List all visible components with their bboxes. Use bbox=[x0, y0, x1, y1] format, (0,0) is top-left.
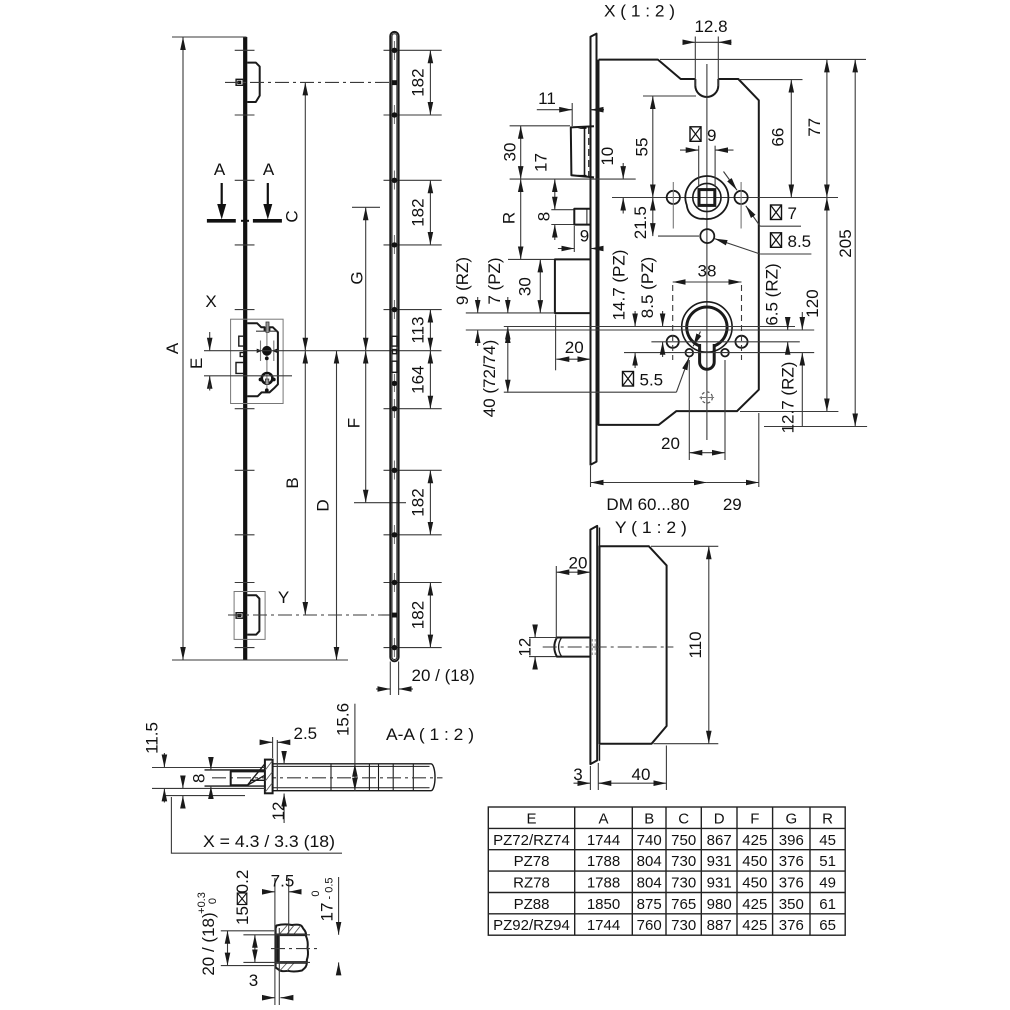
dimension 11.5 bbox=[143, 722, 165, 802]
svg-text:E: E bbox=[187, 358, 206, 369]
dimension 12.7 (RZ) bbox=[779, 312, 803, 433]
svg-text:29: 29 bbox=[723, 495, 742, 514]
svg-text:61: 61 bbox=[819, 896, 836, 913]
label X = 4.3 / 3.3 (18) bbox=[171, 797, 342, 853]
center line follower bbox=[204, 350, 442, 352]
dimension 8 latch bbox=[190, 757, 211, 799]
title X (1:2) bbox=[604, 2, 675, 21]
screw hole ticks on plate bbox=[235, 50, 255, 647]
svg-text:804: 804 bbox=[637, 853, 662, 870]
left handle screw hole d7 bbox=[667, 182, 680, 229]
svg-text:931: 931 bbox=[707, 853, 732, 870]
keeper face plate bbox=[590, 526, 599, 764]
svg-text:30: 30 bbox=[515, 277, 534, 296]
svg-text:38: 38 bbox=[698, 262, 717, 281]
keeper sheet bottom bbox=[152, 786, 265, 796]
dimension C bbox=[283, 82, 306, 350]
dimension 9 bolt throw bbox=[558, 226, 603, 252]
svg-text:B: B bbox=[283, 477, 302, 488]
right handle screw hole d7 bbox=[735, 182, 748, 229]
dimension boxed-9 square bbox=[680, 126, 734, 186]
svg-text:20: 20 bbox=[569, 554, 588, 573]
dimension X gap bbox=[182, 778, 184, 807]
dimension 182 fifth bbox=[409, 583, 431, 648]
svg-text:12: 12 bbox=[516, 638, 535, 657]
small square hole on strip bbox=[392, 350, 396, 354]
dimension 120 bbox=[803, 198, 827, 412]
svg-text:8.5 (PZ): 8.5 (PZ) bbox=[638, 257, 657, 318]
svg-text:17: 17 bbox=[318, 903, 337, 922]
dimension 12.8 bbox=[683, 17, 732, 86]
table header row bbox=[526, 811, 833, 828]
mushroom pin bbox=[554, 638, 590, 657]
svg-text:376: 376 bbox=[779, 917, 804, 934]
svg-text:1744: 1744 bbox=[587, 917, 620, 934]
plate segment marks bbox=[331, 764, 413, 791]
svg-text:PZ78: PZ78 bbox=[514, 853, 550, 870]
svg-text:867: 867 bbox=[707, 832, 732, 849]
plate face lines bbox=[275, 878, 289, 1005]
dimension DM 60...80 and 29 bbox=[591, 413, 759, 514]
svg-text:F: F bbox=[750, 811, 759, 828]
dimension 15 box 0.2 bbox=[233, 870, 310, 963]
follower center line bbox=[612, 197, 838, 199]
face plate edge-on bbox=[243, 37, 247, 660]
label X bbox=[205, 292, 216, 311]
svg-text:875: 875 bbox=[637, 896, 662, 913]
latch bolt front view bbox=[571, 126, 594, 177]
svg-text:182: 182 bbox=[409, 68, 428, 96]
dimension 15.6 bbox=[334, 703, 355, 791]
center line cylinder bbox=[204, 375, 292, 377]
svg-text:E: E bbox=[526, 811, 536, 828]
follower side view bbox=[257, 333, 278, 391]
follower square 9mm bbox=[699, 190, 715, 206]
hole d8.5 below follower bbox=[700, 229, 714, 243]
dimension B bbox=[283, 351, 305, 615]
extension at case shoulder bbox=[739, 79, 803, 81]
center line bbox=[212, 777, 443, 779]
bolt slot on strip bbox=[392, 361, 397, 372]
svg-text:PZ92/RZ94: PZ92/RZ94 bbox=[493, 917, 570, 934]
dimension 113 bbox=[409, 310, 431, 351]
dimension 55 bbox=[633, 96, 697, 198]
svg-text:120: 120 bbox=[803, 289, 822, 317]
svg-text:12.8: 12.8 bbox=[694, 17, 727, 36]
svg-text:7: 7 bbox=[788, 204, 797, 223]
svg-text:182: 182 bbox=[409, 601, 428, 629]
svg-text:164: 164 bbox=[409, 366, 428, 394]
svg-text:G: G bbox=[348, 271, 367, 284]
vertical center line bbox=[706, 64, 708, 440]
face plate lengthwise section bbox=[273, 764, 435, 791]
dimension A bbox=[163, 37, 183, 660]
svg-text:20 / (18): 20 / (18) bbox=[412, 666, 475, 685]
svg-text:730: 730 bbox=[671, 853, 696, 870]
reference line RZ center bbox=[466, 329, 814, 331]
svg-text:15.6: 15.6 bbox=[334, 703, 353, 736]
svg-text:11: 11 bbox=[538, 89, 556, 108]
svg-text:D: D bbox=[314, 499, 333, 511]
dimension 20 / (18) strip width bbox=[376, 662, 475, 696]
svg-text:12.7 (RZ): 12.7 (RZ) bbox=[779, 362, 798, 434]
svg-text:Y ( 1 : 2 ): Y ( 1 : 2 ) bbox=[615, 518, 687, 537]
svg-text:3: 3 bbox=[249, 971, 258, 990]
detail X box bbox=[231, 319, 284, 403]
svg-text:182: 182 bbox=[409, 198, 428, 226]
svg-text:376: 376 bbox=[779, 875, 804, 892]
cylinder profile bbox=[687, 307, 727, 369]
svg-text:396: 396 bbox=[779, 832, 804, 849]
extension 40 bottom / d5.5 leader line bbox=[504, 357, 689, 392]
svg-text:15: 15 bbox=[233, 906, 252, 925]
svg-text:10: 10 bbox=[598, 147, 617, 166]
svg-text:3: 3 bbox=[573, 765, 582, 784]
dimension 6.5 (RZ) bbox=[763, 263, 788, 354]
dimension 20 small holes bbox=[661, 360, 725, 460]
label d7 with leader bbox=[746, 204, 801, 226]
strip outline bbox=[390, 32, 398, 661]
leader to right d7 hole bbox=[724, 172, 738, 191]
dimension 12 pin bbox=[516, 626, 557, 668]
svg-text:750: 750 bbox=[671, 832, 696, 849]
keeper body outline bbox=[600, 546, 667, 743]
svg-text:PZ88: PZ88 bbox=[514, 896, 550, 913]
svg-text:65: 65 bbox=[819, 917, 836, 934]
dimension 182 second bbox=[409, 180, 431, 245]
svg-text:A: A bbox=[163, 342, 182, 354]
dimension 40 case bbox=[598, 746, 666, 791]
title A-A (1:2) bbox=[386, 725, 474, 744]
bottom keeper center line bbox=[228, 614, 391, 616]
svg-text:804: 804 bbox=[637, 875, 662, 892]
mounting hook slot bbox=[695, 79, 718, 97]
svg-text:376: 376 bbox=[779, 853, 804, 870]
svg-text:G: G bbox=[785, 811, 797, 828]
extension 205 bottom bbox=[764, 426, 867, 428]
latch slot on strip bbox=[392, 336, 397, 346]
svg-text:20: 20 bbox=[565, 338, 584, 357]
svg-text:8.5: 8.5 bbox=[788, 232, 812, 251]
reference line PZ center bbox=[504, 326, 795, 328]
bottom fixing hole bbox=[700, 392, 715, 403]
svg-text:182: 182 bbox=[409, 488, 428, 516]
dimension 20 pin bbox=[556, 554, 590, 640]
deadbolt retracted front bbox=[574, 209, 590, 225]
top latch keeper bbox=[236, 63, 260, 102]
svg-text:7 (PZ): 7 (PZ) bbox=[485, 257, 504, 304]
dimension 3 bbox=[249, 971, 293, 998]
svg-text:14.7 (PZ): 14.7 (PZ) bbox=[610, 250, 629, 321]
dimension 2.5 bbox=[260, 724, 317, 790]
lock case side view bbox=[247, 322, 278, 396]
cylinder screw holes d5.5 bbox=[667, 336, 748, 348]
dimension 17 tol bbox=[310, 877, 339, 973]
svg-text:R: R bbox=[500, 212, 519, 224]
svg-text:R: R bbox=[822, 811, 833, 828]
svg-text:9 (RZ): 9 (RZ) bbox=[453, 257, 472, 305]
svg-text:F: F bbox=[345, 418, 364, 428]
leader to small hole from above bbox=[693, 332, 700, 347]
svg-text:0: 0 bbox=[310, 890, 322, 896]
dimension D bbox=[314, 351, 337, 660]
svg-text:0: 0 bbox=[207, 898, 219, 904]
svg-text:7.5: 7.5 bbox=[271, 872, 295, 891]
svg-text:113: 113 bbox=[409, 317, 428, 344]
svg-text:51: 51 bbox=[819, 853, 836, 870]
svg-text:A: A bbox=[214, 160, 226, 179]
dimension E bbox=[187, 332, 210, 395]
svg-text:11.5: 11.5 bbox=[143, 722, 162, 754]
svg-text:1788: 1788 bbox=[587, 875, 620, 892]
small holes d5.5 pair bbox=[686, 349, 729, 357]
svg-text:0.2: 0.2 bbox=[233, 870, 252, 894]
plate cross-section hatched bbox=[265, 760, 273, 794]
dimension 30 bolt head bbox=[515, 259, 540, 313]
dimension G bbox=[348, 207, 380, 350]
svg-text:425: 425 bbox=[742, 832, 767, 849]
svg-text:40: 40 bbox=[632, 765, 651, 784]
svg-text:30: 30 bbox=[501, 143, 520, 162]
dimension 7 (PZ) bbox=[485, 257, 508, 342]
svg-text:931: 931 bbox=[707, 875, 732, 892]
svg-text:C: C bbox=[283, 210, 302, 222]
rivet holes bbox=[392, 48, 397, 651]
svg-text:2.5: 2.5 bbox=[294, 724, 318, 743]
bottom keeper bbox=[236, 595, 259, 634]
screw slot marks bbox=[393, 41, 395, 657]
svg-text:A: A bbox=[263, 160, 275, 179]
keeper extrusion blob bbox=[276, 924, 308, 971]
svg-text:RZ78: RZ78 bbox=[513, 875, 550, 892]
dimension 7.5 bbox=[263, 872, 302, 892]
lock case outline bbox=[599, 60, 759, 425]
dimension 8 bolt bbox=[535, 212, 574, 240]
detail Y box bbox=[234, 592, 265, 640]
dimension 30 latch bbox=[501, 126, 636, 179]
slot center line bbox=[271, 948, 320, 950]
svg-text:21.5: 21.5 bbox=[631, 206, 650, 239]
svg-text:55: 55 bbox=[633, 138, 652, 157]
dimension 9 (RZ) bbox=[453, 257, 478, 346]
svg-text:730: 730 bbox=[671, 917, 696, 934]
table row PZ92/RZ94 bbox=[493, 917, 836, 934]
extension at d8.5 hole bbox=[658, 235, 699, 237]
label Y bbox=[278, 588, 289, 607]
table row PZ88 bbox=[514, 896, 836, 913]
svg-text:980: 980 bbox=[707, 896, 732, 913]
follower inner circle bbox=[693, 183, 721, 211]
svg-text:760: 760 bbox=[637, 917, 662, 934]
dimension 38 bbox=[673, 262, 742, 283]
dimension 21.5 bbox=[631, 198, 653, 240]
svg-text:66: 66 bbox=[769, 128, 788, 147]
dimension 8.5 (PZ) bbox=[638, 257, 663, 357]
reference line lower screw axis bbox=[624, 352, 814, 354]
svg-text:730: 730 bbox=[671, 875, 696, 892]
label d5.5 bbox=[623, 371, 664, 390]
svg-text:77: 77 bbox=[805, 118, 824, 137]
dimension 205 bbox=[836, 59, 855, 426]
dimension F bbox=[345, 351, 406, 503]
svg-text:450: 450 bbox=[742, 875, 767, 892]
dimension 17 bbox=[532, 153, 575, 210]
dimension 40 (72/74) bbox=[480, 330, 508, 417]
extension 120 bottom bbox=[740, 411, 838, 413]
keeper sheet top bbox=[152, 768, 265, 770]
table row PZ78 bbox=[514, 853, 836, 870]
top extension line bbox=[172, 36, 247, 38]
svg-text:887: 887 bbox=[707, 917, 732, 934]
title Y (1:2) bbox=[615, 518, 687, 537]
svg-text:425: 425 bbox=[742, 917, 767, 934]
table grid bbox=[488, 807, 845, 935]
pin center line bbox=[543, 646, 674, 648]
svg-text:9: 9 bbox=[580, 227, 589, 246]
dimension 20/(18) tol rotated bbox=[196, 892, 274, 976]
bottom extension line bbox=[172, 659, 348, 661]
svg-text:- 0.5: - 0.5 bbox=[324, 877, 336, 899]
svg-text:20: 20 bbox=[661, 434, 680, 453]
reference line bolt bottom bbox=[466, 312, 555, 314]
dimension 110 bbox=[651, 546, 718, 743]
dimension 182 fourth bbox=[409, 470, 431, 535]
svg-text:1788: 1788 bbox=[587, 853, 620, 870]
svg-text:X: X bbox=[205, 292, 216, 311]
section A-A marker bbox=[207, 160, 282, 221]
svg-text:12: 12 bbox=[269, 802, 288, 821]
svg-text:8: 8 bbox=[190, 774, 209, 783]
table row RZ78 bbox=[513, 875, 836, 892]
dimension 66 bbox=[769, 80, 792, 198]
svg-text:DM 60...80: DM 60...80 bbox=[606, 495, 689, 514]
top keeper center line bbox=[225, 81, 391, 83]
dimension 3 plate bbox=[573, 765, 590, 790]
dashed lines through screw holes bbox=[673, 285, 742, 360]
svg-text:C: C bbox=[678, 811, 689, 828]
svg-text:110: 110 bbox=[686, 631, 705, 658]
svg-text:A: A bbox=[598, 811, 608, 828]
latch bolt section bbox=[231, 764, 265, 786]
face plate front edge bbox=[591, 34, 597, 465]
dimension R bbox=[500, 179, 555, 259]
label d8.5 with leader bbox=[715, 232, 812, 254]
svg-text:X = 4.3 / 3.3 (18): X = 4.3 / 3.3 (18) bbox=[203, 832, 335, 851]
dimension 164 bbox=[409, 351, 431, 409]
svg-text:PZ72/RZ74: PZ72/RZ74 bbox=[493, 832, 570, 849]
svg-text:205: 205 bbox=[836, 229, 855, 257]
deadbolt head thrown bbox=[555, 259, 591, 313]
dimension 14.7 (PZ) bbox=[610, 250, 635, 368]
latch slot cutouts on plate bbox=[236, 336, 243, 373]
svg-text:740: 740 bbox=[637, 832, 662, 849]
svg-text:B: B bbox=[644, 811, 654, 828]
svg-text:9: 9 bbox=[707, 126, 716, 145]
dimension 12 section bbox=[269, 752, 288, 823]
svg-text:450: 450 bbox=[742, 853, 767, 870]
dimension 182 first bbox=[409, 50, 431, 115]
svg-text:1744: 1744 bbox=[587, 832, 620, 849]
svg-text:40 (72/74): 40 (72/74) bbox=[480, 340, 499, 418]
svg-text:350: 350 bbox=[779, 896, 804, 913]
svg-text:17: 17 bbox=[532, 153, 551, 172]
svg-text:8: 8 bbox=[535, 212, 554, 221]
keeper slot bbox=[278, 935, 306, 963]
hole extension lines to dimension column bbox=[384, 50, 442, 647]
svg-text:5.5: 5.5 bbox=[640, 371, 664, 390]
svg-text:X ( 1 : 2 ): X ( 1 : 2 ) bbox=[604, 2, 675, 21]
cylinder rosette outer circle bbox=[682, 302, 732, 352]
reference line screw axis bbox=[651, 341, 799, 343]
dimension 77 bbox=[805, 59, 827, 197]
svg-text:Y: Y bbox=[278, 588, 289, 607]
cylinder side view bbox=[259, 373, 276, 392]
svg-text:20 / (18): 20 / (18) bbox=[199, 912, 218, 975]
follower outer contour bbox=[685, 176, 728, 219]
table row PZ72/RZ74 bbox=[493, 832, 836, 849]
svg-text:45: 45 bbox=[819, 832, 836, 849]
dimension 20 bolt head bbox=[556, 315, 591, 371]
svg-text:1850: 1850 bbox=[587, 896, 620, 913]
svg-text:765: 765 bbox=[671, 896, 696, 913]
top extension line bbox=[660, 58, 866, 60]
dimension 11 bbox=[537, 89, 604, 126]
svg-text:6.5 (RZ): 6.5 (RZ) bbox=[763, 263, 782, 325]
svg-text:49: 49 bbox=[819, 875, 836, 892]
svg-text:425: 425 bbox=[742, 896, 767, 913]
svg-text:A-A ( 1 : 2 ): A-A ( 1 : 2 ) bbox=[386, 725, 474, 744]
dimension 10 bbox=[598, 147, 623, 214]
svg-text:D: D bbox=[714, 811, 725, 828]
